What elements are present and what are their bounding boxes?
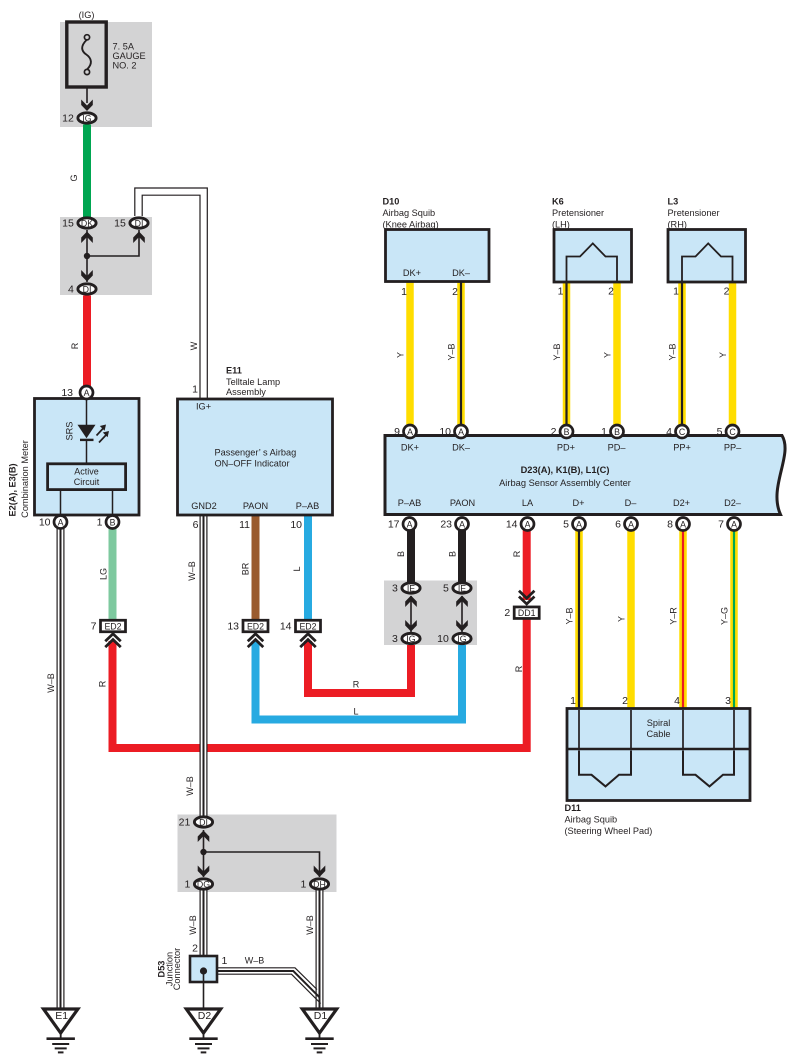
svg-text:5: 5 xyxy=(443,583,449,595)
svg-text:3: 3 xyxy=(392,583,398,595)
svg-text:E1: E1 xyxy=(55,1010,68,1022)
svg-text:1: 1 xyxy=(401,286,407,298)
svg-text:1: 1 xyxy=(673,286,679,298)
svg-text:D2–: D2– xyxy=(724,498,742,508)
svg-text:W–B: W–B xyxy=(305,915,315,935)
svg-text:Active: Active xyxy=(74,467,99,477)
svg-text:E11: E11 xyxy=(226,366,242,376)
svg-text:IE: IE xyxy=(458,584,466,594)
svg-text:2: 2 xyxy=(724,286,730,298)
svg-text:BR: BR xyxy=(241,562,251,575)
svg-text:LA: LA xyxy=(522,498,534,508)
svg-text:17: 17 xyxy=(388,519,400,531)
svg-text:(Steering Wheel Pad): (Steering Wheel Pad) xyxy=(565,826,653,836)
svg-text:7: 7 xyxy=(91,621,97,633)
svg-text:PAON: PAON xyxy=(243,501,268,511)
svg-text:G: G xyxy=(69,174,79,181)
svg-text:(IG): (IG) xyxy=(79,10,95,20)
svg-text:1: 1 xyxy=(184,879,190,891)
svg-text:LG: LG xyxy=(99,568,109,580)
svg-text:IG: IG xyxy=(457,634,466,644)
svg-text:D23(A), K1(B), L1(C): D23(A), K1(B), L1(C) xyxy=(521,465,610,475)
svg-text:21: 21 xyxy=(179,817,191,829)
svg-text:IG: IG xyxy=(82,114,91,124)
svg-text:ED2: ED2 xyxy=(247,622,264,632)
svg-text:DK+: DK+ xyxy=(403,268,421,278)
svg-text:Y–B: Y–B xyxy=(668,343,678,360)
svg-text:A: A xyxy=(84,388,90,398)
svg-text:PP–: PP– xyxy=(724,443,742,453)
svg-text:10: 10 xyxy=(439,426,451,438)
svg-text:R: R xyxy=(514,665,524,672)
svg-text:Connector: Connector xyxy=(172,948,182,990)
svg-text:Y: Y xyxy=(396,352,406,358)
svg-text:E2(A), E3(B): E2(A), E3(B) xyxy=(8,463,18,516)
svg-text:K6: K6 xyxy=(552,197,564,207)
svg-text:10: 10 xyxy=(290,519,302,531)
svg-text:ED2: ED2 xyxy=(104,622,121,632)
svg-text:A: A xyxy=(407,427,413,437)
svg-text:SRS: SRS xyxy=(65,422,75,441)
svg-text:Y–R: Y–R xyxy=(669,607,679,625)
svg-text:Pretensioner: Pretensioner xyxy=(552,208,604,218)
svg-text:C: C xyxy=(679,427,686,437)
svg-text:Combination Meter: Combination Meter xyxy=(20,440,30,518)
svg-text:13: 13 xyxy=(227,621,239,633)
svg-text:6: 6 xyxy=(193,519,199,531)
svg-text:4: 4 xyxy=(666,426,672,438)
svg-text:A: A xyxy=(576,520,582,530)
svg-text:W: W xyxy=(189,341,199,350)
svg-text:1: 1 xyxy=(570,695,576,707)
svg-text:B: B xyxy=(110,518,116,528)
svg-text:23: 23 xyxy=(440,519,452,531)
svg-text:A: A xyxy=(458,427,464,437)
svg-text:NO. 2: NO. 2 xyxy=(113,61,137,71)
svg-text:Y–B: Y–B xyxy=(447,343,457,360)
svg-text:R: R xyxy=(70,342,80,349)
svg-text:(RH): (RH) xyxy=(668,220,687,230)
svg-text:D1: D1 xyxy=(314,1010,328,1022)
svg-text:15: 15 xyxy=(62,218,74,230)
svg-text:15: 15 xyxy=(114,218,126,230)
svg-text:C: C xyxy=(729,427,736,437)
svg-text:Cable: Cable xyxy=(646,729,670,739)
svg-text:DG: DG xyxy=(197,880,210,890)
svg-text:3: 3 xyxy=(392,633,398,645)
svg-text:PP+: PP+ xyxy=(673,443,691,453)
svg-text:B: B xyxy=(564,427,570,437)
svg-text:Airbag Squib: Airbag Squib xyxy=(383,208,436,218)
svg-text:10: 10 xyxy=(39,517,51,529)
svg-text:Assembly: Assembly xyxy=(226,387,266,397)
svg-text:2: 2 xyxy=(551,426,557,438)
svg-text:(Knee Airbag): (Knee Airbag) xyxy=(383,220,439,230)
svg-text:Circuit: Circuit xyxy=(74,477,100,487)
svg-text:D+: D+ xyxy=(572,498,584,508)
svg-text:6: 6 xyxy=(615,519,621,531)
svg-text:Airbag Sensor Assembly Center: Airbag Sensor Assembly Center xyxy=(499,478,631,488)
svg-text:DI: DI xyxy=(83,285,92,295)
svg-text:7. 5A: 7. 5A xyxy=(113,42,135,52)
svg-text:Pretensioner: Pretensioner xyxy=(668,208,720,218)
svg-text:Telltale Lamp: Telltale Lamp xyxy=(226,377,280,387)
svg-text:5: 5 xyxy=(563,519,569,531)
svg-text:R: R xyxy=(512,550,522,557)
svg-text:D2+: D2+ xyxy=(673,498,690,508)
svg-text:13: 13 xyxy=(61,387,73,399)
svg-text:4: 4 xyxy=(68,284,74,296)
svg-text:B: B xyxy=(448,551,458,557)
svg-text:11: 11 xyxy=(239,519,250,531)
svg-text:Airbag Squib: Airbag Squib xyxy=(565,815,618,825)
svg-text:2: 2 xyxy=(452,286,458,298)
svg-text:Y: Y xyxy=(617,616,627,622)
svg-text:IG+: IG+ xyxy=(196,402,211,412)
svg-text:2: 2 xyxy=(192,943,198,955)
svg-text:(LH): (LH) xyxy=(552,220,570,230)
svg-text:PD+: PD+ xyxy=(557,443,575,453)
svg-text:P–AB: P–AB xyxy=(296,501,320,511)
svg-text:3: 3 xyxy=(725,695,731,707)
svg-text:DD1: DD1 xyxy=(518,608,536,618)
svg-text:W–B: W–B xyxy=(185,776,195,796)
svg-text:10: 10 xyxy=(437,633,449,645)
svg-text:A: A xyxy=(628,520,634,530)
svg-text:DH: DH xyxy=(313,880,326,890)
svg-text:Y: Y xyxy=(718,352,728,358)
svg-text:B: B xyxy=(396,551,406,557)
svg-text:IE: IE xyxy=(407,584,415,594)
svg-text:1: 1 xyxy=(222,955,228,967)
svg-text:W–B: W–B xyxy=(188,915,198,935)
svg-text:A: A xyxy=(680,520,686,530)
svg-text:W–B: W–B xyxy=(245,956,265,966)
svg-text:1: 1 xyxy=(300,879,306,891)
svg-text:W–B: W–B xyxy=(46,673,56,693)
svg-text:P–AB: P–AB xyxy=(398,498,422,508)
svg-text:2: 2 xyxy=(622,695,628,707)
svg-text:Y: Y xyxy=(603,352,613,358)
svg-text:R: R xyxy=(353,680,360,690)
svg-text:ON–OFF Indicator: ON–OFF Indicator xyxy=(215,459,290,469)
svg-text:5: 5 xyxy=(717,426,723,438)
svg-text:A: A xyxy=(459,520,465,530)
svg-text:4: 4 xyxy=(674,695,680,707)
svg-text:8: 8 xyxy=(667,519,673,531)
svg-text:Passenger’ s Airbag: Passenger’ s Airbag xyxy=(215,448,297,458)
svg-text:D–: D– xyxy=(625,498,638,508)
svg-text:ED2: ED2 xyxy=(299,622,316,632)
svg-text:14: 14 xyxy=(506,519,518,531)
svg-text:1: 1 xyxy=(192,384,198,396)
svg-text:D2: D2 xyxy=(198,1010,212,1022)
svg-text:L: L xyxy=(353,707,358,717)
svg-text:1: 1 xyxy=(601,426,607,438)
svg-text:Y–B: Y–B xyxy=(552,343,562,360)
svg-text:R: R xyxy=(98,680,108,687)
svg-text:A: A xyxy=(58,518,64,528)
svg-text:14: 14 xyxy=(280,621,292,633)
svg-text:2: 2 xyxy=(608,286,614,298)
svg-text:Y–G: Y–G xyxy=(720,607,730,625)
svg-text:A: A xyxy=(731,520,737,530)
svg-text:W–B: W–B xyxy=(187,561,197,581)
svg-text:DK+: DK+ xyxy=(401,443,419,453)
svg-text:2: 2 xyxy=(504,607,510,619)
svg-text:GND2: GND2 xyxy=(191,501,217,511)
svg-text:PD–: PD– xyxy=(608,443,627,453)
svg-text:A: A xyxy=(407,520,413,530)
svg-text:D11: D11 xyxy=(565,803,581,813)
svg-text:B: B xyxy=(614,427,620,437)
svg-text:9: 9 xyxy=(394,426,400,438)
svg-text:A: A xyxy=(525,520,531,530)
svg-text:DK–: DK– xyxy=(452,268,471,278)
svg-text:PAON: PAON xyxy=(450,498,475,508)
svg-text:7: 7 xyxy=(718,519,724,531)
svg-text:IG: IG xyxy=(406,634,415,644)
svg-text:DI: DI xyxy=(135,219,144,229)
svg-text:1: 1 xyxy=(558,286,564,298)
svg-text:Spiral: Spiral xyxy=(647,718,671,728)
svg-text:GAUGE: GAUGE xyxy=(113,51,146,61)
svg-text:D10: D10 xyxy=(383,197,400,207)
svg-text:DI: DI xyxy=(199,818,208,828)
svg-text:L3: L3 xyxy=(668,197,679,207)
svg-text:1: 1 xyxy=(97,517,103,529)
svg-text:DK: DK xyxy=(81,219,93,229)
svg-text:DK–: DK– xyxy=(452,443,471,453)
svg-text:12: 12 xyxy=(62,113,74,125)
svg-text:Y–B: Y–B xyxy=(565,607,575,624)
svg-text:L: L xyxy=(292,566,302,571)
